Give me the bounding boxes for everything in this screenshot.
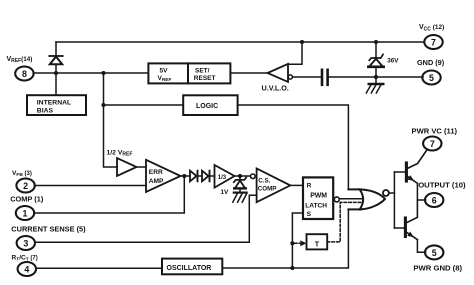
diode D3 (202, 171, 210, 182)
svg-text:SET/: SET/ (195, 67, 210, 74)
pin circle 7 (PWR VC) (423, 137, 441, 151)
diode D2 (190, 171, 198, 182)
svg-text:U.V.L.O.: U.V.L.O. (262, 84, 289, 93)
wire capacitor to GND pin (329, 76, 423, 78)
wire logic left (104, 104, 184, 106)
wire driver base rail (393, 172, 395, 228)
svg-text:1/2 VREF: 1/2 VREF (107, 149, 133, 157)
svg-text:ERR: ERR (149, 169, 163, 176)
svg-text:PWM: PWM (310, 193, 327, 200)
svg-text:BIAS: BIAS (37, 107, 54, 114)
wire VFB to err amp (34, 185, 146, 187)
wire oscillator out (222, 209, 348, 268)
buffer amp 1/2 VREF (117, 158, 137, 176)
wire logic to NOR top (238, 105, 349, 189)
svg-text:LATCH: LATCH (305, 202, 327, 209)
svg-text:AMP: AMP (149, 178, 164, 185)
junction dot at x103 (101, 71, 105, 75)
svg-text:PWR GND (8): PWR GND (8) (413, 263, 462, 272)
op-amp ERR AMP (146, 160, 181, 192)
svg-text:5V: 5V (160, 67, 169, 74)
svg-text:1V: 1V (221, 189, 230, 196)
svg-text:OUTPUT (10): OUTPUT (10) (418, 181, 466, 190)
svg-text:RT/CT (7): RT/CT (7) (12, 254, 38, 262)
svg-text:RESET: RESET (194, 75, 216, 82)
zener diode 1V clamp (234, 176, 246, 192)
wire VCC top rail (56, 41, 424, 43)
svg-text:INTERNAL: INTERNAL (37, 99, 71, 106)
wire NOR output (389, 192, 395, 194)
svg-text:5: 5 (432, 248, 437, 258)
logic box (183, 95, 237, 115)
NOR gate (348, 189, 389, 209)
wire UVLO out to capacitor (292, 76, 320, 78)
box 5V VREF / SET RESET (148, 63, 230, 83)
junction dot logic tap (101, 103, 105, 107)
wire latch output to NOR (339, 198, 362, 200)
amp 1/3 (215, 165, 235, 188)
svg-text:OSCILLATOR: OSCILLATOR (167, 265, 212, 272)
svg-text:C.S.: C.S. (258, 177, 270, 184)
junction dot 1V zener (238, 174, 242, 178)
svg-text:VREF: VREF (158, 75, 172, 83)
svg-text:VFB (3): VFB (3) (12, 170, 32, 178)
svg-text:GND (9): GND (9) (417, 58, 445, 67)
svg-text:4: 4 (24, 265, 29, 275)
svg-text:8: 8 (22, 69, 27, 79)
transistor Q2 (bottom NPN) (394, 200, 425, 252)
ground (36V zener) (366, 77, 383, 93)
wire vertical x103 to buffer input (104, 73, 118, 167)
capacitor C1 (322, 70, 328, 85)
pin circle 4 (RT/CT) (18, 262, 36, 276)
svg-text:7: 7 (431, 38, 436, 48)
wire err amp out (181, 175, 191, 177)
diode D1 (VREF to VCC rail) (49, 42, 62, 73)
dashed wire T to NOR input (327, 202, 362, 242)
junction dot rail/UVLO (300, 40, 304, 44)
op-amp U.V.L.O. inverter (262, 64, 293, 93)
wire RT/CT to oscillator (36, 267, 162, 269)
wire between diodes (198, 175, 203, 177)
wire VREF node horizontal (33, 72, 148, 74)
svg-text:COMP: COMP (258, 186, 277, 193)
junction dot rail/zener (374, 40, 378, 44)
wire COMP to err amp output (34, 176, 185, 213)
wire latch S input from oscillator (292, 213, 303, 268)
transistor Q1 (top NPN) (394, 150, 427, 200)
svg-text:S: S (307, 211, 312, 218)
pin circle 6 (OUTPUT) (425, 193, 443, 207)
wire internal bias stem (55, 73, 57, 95)
wire diode to 1/3 amp (210, 175, 215, 177)
PWM latch U2 (303, 177, 339, 219)
svg-text:COMP (1): COMP (1) (10, 194, 44, 203)
svg-text:PWR VC (11): PWR VC (11) (412, 127, 458, 136)
svg-text:VCC (12): VCC (12) (419, 24, 444, 32)
pin circle 3 (CURRENT SENSE) (17, 236, 35, 250)
svg-text:7: 7 (430, 139, 435, 149)
ground (1V zener) (233, 193, 247, 203)
pin circle 8 (VREF pin) (15, 67, 33, 81)
wire CS comp out to latch R (290, 184, 303, 186)
pin circle 2 (VFB) (16, 179, 34, 193)
svg-text:6: 6 (432, 196, 437, 206)
svg-text:T: T (315, 239, 320, 248)
svg-text:CURRENT SENSE (5): CURRENT SENSE (5) (11, 225, 86, 234)
svg-text:1: 1 (23, 209, 28, 219)
wire current sense (35, 195, 257, 242)
comparator C.S. COMP (251, 169, 291, 203)
svg-text:VREF(14): VREF(14) (7, 56, 33, 64)
wire set/reset to UVLO (230, 72, 267, 74)
svg-text:36V: 36V (387, 57, 399, 64)
wire UVLO top to rail (288, 42, 302, 64)
pin circle 5 (GND) (422, 71, 440, 85)
internal bias box (27, 95, 86, 115)
junction dot err amp output (182, 174, 186, 178)
zener diode 36V (368, 42, 399, 77)
svg-text:2: 2 (23, 181, 28, 191)
svg-text:LOGIC: LOGIC (196, 103, 218, 110)
junction dot at diode anode (54, 71, 58, 75)
wire 1/3 out to CS comp (235, 175, 251, 177)
pin circle 5 (PWR GND) (425, 245, 443, 259)
junction dot S/osc (290, 266, 294, 270)
svg-text:5: 5 (429, 73, 434, 83)
svg-text:R: R (307, 182, 312, 189)
pin circle 1 (COMP) (16, 206, 34, 220)
oscillator box (162, 259, 222, 275)
junction dot zener/gnd wire (374, 75, 378, 79)
dashed wire clock to T with arrow (295, 240, 307, 246)
wire buffer to err amp (137, 166, 147, 168)
pin circle 7 (VCC) (424, 35, 442, 49)
junction dot S/T tap (290, 241, 294, 245)
T flip-flop box (307, 234, 328, 249)
svg-text:3: 3 (23, 239, 28, 249)
wire output node (417, 199, 425, 201)
svg-text:1/3: 1/3 (218, 175, 227, 181)
